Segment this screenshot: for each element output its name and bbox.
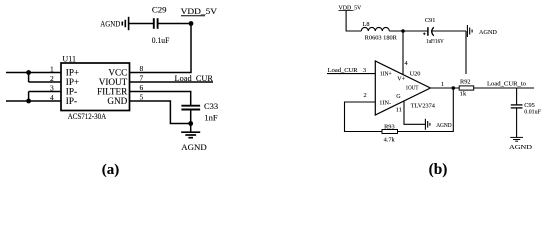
svg-text:2: 2 [364,92,367,99]
svg-text:U20: U20 [410,71,421,78]
capacitor C29 plates [154,18,158,29]
ground AGND (left of C29, sideways) [122,17,128,30]
wire underline VDD_5V (b) [339,9,353,11]
ground AGND (pin11, sideways) [425,119,430,130]
svg-text:ACS712-30A: ACS712-30A [68,111,107,121]
wire opamp output [430,87,459,89]
svg-text:7: 7 [140,73,144,82]
wire pin7 VIOUT net Load_CUR [130,81,214,83]
wire pin8 VCC to VDD node [130,24,192,73]
svg-text:1: 1 [441,81,444,88]
wire C91 to AGND corner [432,30,466,32]
svg-text:V+: V+ [397,77,405,83]
wire pin5 GND to C33 bottom [130,101,191,124]
svg-text:4.7k: 4.7k [384,137,396,144]
svg-text:8: 8 [140,64,144,73]
svg-text:L8: L8 [363,21,370,28]
svg-text:AGND: AGND [100,19,120,28]
svg-text:5: 5 [140,92,144,101]
svg-text:VIOUT: VIOUT [99,77,128,87]
wire riser pin1-pin2 [28,73,30,83]
IC U11 body [61,63,130,111]
wire pin3 input Load_CUR [327,73,375,75]
ground AGND (below C33) [181,132,200,138]
svg-text:IP-: IP- [66,96,77,106]
wire pin2 [29,81,61,83]
wire L8 to C91 [389,30,427,32]
svg-text:6: 6 [140,83,144,92]
op-amp U20 triangle [375,61,430,115]
svg-text:R0603 180R: R0603 180R [365,34,398,41]
junction node C33/GND [188,121,193,126]
svg-text:C91: C91 [425,17,436,24]
inductor L8 coil [361,27,389,31]
svg-text:Load_CUR: Load_CUR [175,73,214,83]
svg-text:G: G [396,94,401,100]
svg-text:1OUT: 1OUT [406,86,419,92]
resistor R93 body [382,130,398,134]
ground AGND (below C95) [510,137,523,141]
wire pin6 FILTER to C33 [130,92,191,106]
wire pin4 V+ riser [402,31,404,75]
wire input stub pin4 [6,100,61,102]
svg-text:1IN-: 1IN- [379,100,391,106]
svg-text:AGND: AGND [436,122,452,129]
ground AGND (top right, sideways) [467,25,472,37]
svg-text:C33: C33 [204,101,218,111]
wire riser pin4-pin3 [28,92,30,102]
svg-text:4: 4 [50,93,54,102]
wire input stub pin1 [6,72,61,74]
wire C95 to ground [516,108,518,137]
svg-text:1IN+: 1IN+ [380,71,392,77]
wire C29 left to AGND [129,23,153,25]
svg-text:U11: U11 [62,53,76,63]
wire R93 to output node [398,88,454,132]
wire pin3 [29,91,61,93]
svg-text:1uF/16V: 1uF/16V [426,38,444,45]
svg-text:1k: 1k [460,90,467,97]
svg-text:0.1uF: 0.1uF [152,36,170,45]
svg-text:1: 1 [50,64,54,73]
resistor R92 body [459,86,474,90]
junction node pin1 stub [26,70,31,75]
junction node after L8 [401,29,405,33]
wire C33 bottom lead [190,110,192,124]
wire R92 to Load_CUR_to [474,87,534,89]
capacitor C91 curved plate [432,27,434,36]
svg-text:C29: C29 [152,4,167,14]
svg-text:R92: R92 [460,78,471,85]
wire C95 tap [516,88,518,105]
wire pin11 ground [404,101,425,124]
svg-text:(b): (b) [429,161,448,178]
junction node pin4 stub [26,99,31,104]
svg-text:FILTER: FILTER [97,87,128,97]
junction node VDD_5V [189,21,194,26]
junction node output [452,86,456,90]
svg-text:IP-: IP- [66,87,77,97]
svg-text:Load_CUR_to: Load_CUR_to [487,81,526,88]
svg-text:IP+: IP+ [66,77,79,87]
svg-text:3: 3 [363,67,366,74]
svg-text:1nF: 1nF [204,113,218,123]
wire underline VDD_5V [181,15,205,17]
svg-text:AGND: AGND [509,144,533,151]
wire stub down from AGND corner [465,31,467,74]
svg-text:0.01uF: 0.01uF [524,109,541,116]
svg-text:R93: R93 [384,124,395,131]
svg-text:VCC: VCC [108,68,127,78]
svg-text:3: 3 [50,83,54,92]
svg-text:Load_CUR: Load_CUR [328,67,359,74]
svg-text:TLV2374: TLV2374 [411,103,436,110]
svg-text:(a): (a) [102,162,120,178]
capacitor C91 plate [427,27,429,36]
svg-text:2: 2 [50,74,54,83]
polarity + of C91 [423,33,426,36]
svg-text:AGND: AGND [479,29,497,36]
wire opamp pin2 feedback left [345,102,383,132]
svg-text:11: 11 [396,106,402,113]
wire VDD_5V drop [346,11,361,32]
wire ground stem C33 [190,124,192,132]
svg-text:GND: GND [107,96,127,106]
capacitor C33 plates [181,106,200,110]
capacitor C95 plates [511,105,523,108]
wire C29 right to VDD node [158,23,191,25]
svg-text:AGND: AGND [181,142,207,152]
svg-text:VDD_5V: VDD_5V [181,6,218,16]
svg-text:IP+: IP+ [66,68,79,78]
